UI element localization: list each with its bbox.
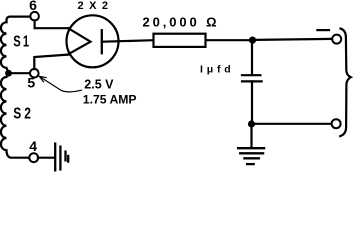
wire terminal5 to tube filament bottom (34, 55, 68, 70)
coil S2 (1, 73, 30, 158)
wire plate to resistor (102, 40, 153, 42)
wire terminal6 to coil S1 top (7, 17, 31, 23)
wire tap to terminal 5 (9, 72, 31, 74)
wire resistor to junction A (206, 39, 249, 41)
wire junction A to output terminal plus (256, 39, 332, 40)
terminal 6 (30, 12, 39, 21)
terminal 4 (29, 153, 38, 162)
svg-text:4: 4 (29, 138, 37, 154)
output terminal top (332, 35, 341, 44)
svg-text:20,000 Ω: 20,000 Ω (143, 15, 220, 30)
svg-text:2 X 2: 2 X 2 (78, 0, 110, 12)
wire junction B to output terminal bottom (255, 123, 331, 125)
output brace (340, 29, 351, 137)
svg-text:2.5 V: 2.5 V (84, 78, 114, 92)
label S2 (13, 104, 34, 122)
svg-text:1.75 AMP: 1.75 AMP (83, 92, 137, 106)
resistor R1 20,000 ohm (154, 34, 206, 47)
svg-text:Iμfd: Iμfd (200, 64, 234, 76)
junction dot S1/S2 tap (5, 70, 12, 77)
tube U1 filament (69, 28, 91, 54)
wire junction B to earth ground (250, 128, 252, 148)
coil S1 (1, 22, 9, 73)
junction B dot (248, 120, 255, 127)
tube U1 plate bar (101, 30, 103, 53)
svg-text:S2: S2 (13, 104, 34, 122)
chassis ground (sideways bars) (55, 144, 68, 171)
output terminal bottom (332, 119, 341, 128)
junction A dot (249, 37, 256, 44)
wire terminal 4 to chassis ground (38, 157, 55, 159)
svg-text:S1: S1 (13, 31, 31, 50)
wire terminal6 to tube filament top (35, 20, 69, 28)
capacitor C1 top plate (242, 74, 260, 76)
leader arrow to terminal 5 (39, 76, 81, 92)
capacitor C1 bottom plate (242, 80, 262, 82)
earth ground (238, 148, 264, 164)
label S1 (13, 31, 31, 50)
wire junction A down to capacitor (251, 44, 253, 74)
tube U1 envelope (67, 15, 119, 67)
terminal 5 (30, 69, 39, 78)
minus polarity mark (317, 29, 329, 31)
wire capacitor to junction B (251, 81, 253, 120)
svg-text:5: 5 (27, 74, 35, 90)
